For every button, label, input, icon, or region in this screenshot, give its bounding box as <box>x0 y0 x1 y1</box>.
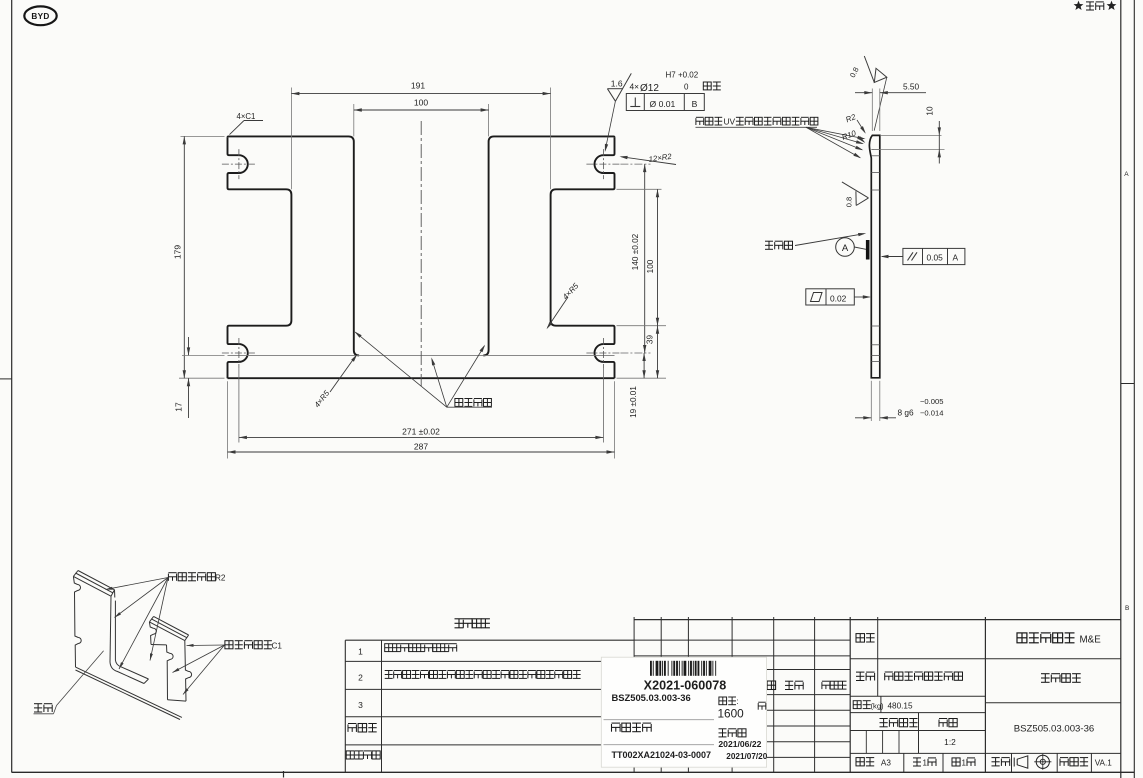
sheet size label <box>856 758 864 766</box>
dim 140 pm 0.02 vertical <box>644 164 646 353</box>
svg-text:2: 2 <box>358 673 363 683</box>
svg-text:H7 +0.02: H7 +0.02 <box>666 71 699 80</box>
dim 287 extension lines <box>227 381 229 458</box>
label barcode <box>650 661 652 676</box>
svg-text:8 g6: 8 g6 <box>898 407 915 417</box>
slot centerline cross <box>222 352 256 354</box>
drawing frame bottom border <box>12 771 1135 773</box>
svg-text:BSZ505.03.003-36: BSZ505.03.003-36 <box>612 692 691 703</box>
dim 17 extension line at base top <box>182 354 225 356</box>
dim 8 g6 extension lines <box>870 381 872 421</box>
note leader arrows to side view lip <box>806 127 864 138</box>
dim 100 top extension lines <box>353 104 355 136</box>
side view plate outline <box>869 135 879 377</box>
3d sketch right plate left edge with slot notches <box>149 622 156 645</box>
svg-text:C1: C1 <box>272 642 283 651</box>
star symbol left <box>1074 1 1084 10</box>
slot centerline extension down left for 271 dim <box>238 368 240 443</box>
stage mark label <box>880 719 888 727</box>
svg-text:A: A <box>1124 171 1129 178</box>
label inner edge chamfer R2 <box>168 573 176 581</box>
svg-text:X2021-060078: X2021-060078 <box>644 678 727 692</box>
partial stamp glyph <box>758 702 766 710</box>
svg-text:R2: R2 <box>215 574 226 583</box>
svg-text:39: 39 <box>646 335 655 345</box>
svg-text:VA.1: VA.1 <box>1095 758 1113 767</box>
secret text 秘密 <box>1086 2 1094 10</box>
3d sketch left plate bottom edge <box>76 667 182 717</box>
label rule lines <box>604 719 715 721</box>
svg-text:Ø12: Ø12 <box>640 83 659 94</box>
front view top edge right segment with central opening right edge <box>483 136 614 355</box>
3d sketch web bottom curve <box>110 662 144 684</box>
svg-text:TT002XA21024-03-0007: TT002XA21024-03-0007 <box>612 750 712 760</box>
front view part outline left leg <box>228 137 292 378</box>
dim 179 extension lines <box>181 135 225 137</box>
left margin zone divider <box>0 378 12 380</box>
3d sketch left plate left edge with slot notches <box>73 576 81 667</box>
dim 271 pm 0.02 <box>239 436 604 438</box>
svg-text:2021/07/20: 2021/07/20 <box>726 752 767 761</box>
svg-text:480.15: 480.15 <box>888 702 913 711</box>
material value epoxy glass fiber <box>885 672 893 680</box>
label 4xC1 chamfer callout <box>230 121 245 135</box>
additional lip leader arrows <box>806 127 862 150</box>
dim 10 with outside arrows <box>938 121 940 135</box>
datum A circle <box>836 238 855 257</box>
stage mark cells <box>918 713 920 754</box>
svg-text:2021/06/22: 2021/06/22 <box>718 739 761 749</box>
front view bottom edge <box>228 377 615 379</box>
svg-text:BYD: BYD <box>31 12 49 21</box>
roughness 0.8 on top surface <box>874 68 887 82</box>
flatness leader arrow <box>854 296 869 298</box>
svg-text:179: 179 <box>173 245 183 259</box>
3d sketch right plate bottom <box>168 700 187 701</box>
svg-text:Ø 0.01: Ø 0.01 <box>650 99 676 109</box>
svg-text:10: 10 <box>926 106 935 116</box>
svg-text:−0.005: −0.005 <box>920 397 943 406</box>
scale label <box>939 719 947 727</box>
svg-text:0.02: 0.02 <box>830 293 847 303</box>
dim 5.50 extension lines <box>871 89 873 132</box>
dim 39 vertical <box>617 377 667 379</box>
svg-text:A3: A3 <box>881 758 891 767</box>
roughness symbol 1.6 on top right <box>607 88 623 90</box>
drawing frame right inner border <box>1120 0 1122 778</box>
feature control frame perpendicularity <box>626 94 704 111</box>
3d sketch right plate top edge band <box>149 622 184 641</box>
material label <box>856 672 864 680</box>
roughness 0.8 on left face <box>842 182 869 198</box>
svg-text:1: 1 <box>962 758 967 767</box>
bottom row cell separators <box>903 753 905 772</box>
drawing frame left border <box>11 0 13 773</box>
3d sketch web verticals <box>110 596 111 662</box>
svg-text:A: A <box>842 243 849 254</box>
slot centerline extension right lower for 19 dim <box>620 352 650 354</box>
svg-text:M&E: M&E <box>1080 634 1102 645</box>
label front face <box>34 704 42 712</box>
svg-text:B: B <box>692 99 698 109</box>
revision header partial glyph <box>767 681 776 690</box>
3d sketch inner web line <box>144 679 149 684</box>
tech requirements table grid <box>344 640 346 772</box>
view angle label <box>992 758 1000 766</box>
svg-text:1600: 1600 <box>718 707 745 721</box>
dim 100 right vertical <box>657 189 659 325</box>
version label <box>1060 758 1068 766</box>
dim 179 <box>183 136 185 378</box>
label person name <box>719 729 727 737</box>
label quantity caption <box>719 697 727 705</box>
svg-text:1: 1 <box>358 647 363 657</box>
svg-text:191: 191 <box>411 80 425 90</box>
flatness feature control frame <box>806 289 855 305</box>
front view top edge left segment with corner fillets <box>228 136 360 355</box>
title block horizontals middle <box>850 658 1121 660</box>
slot centerline extension down right for 271 dim <box>602 368 604 443</box>
parallelism feature control frame <box>903 248 965 264</box>
svg-text:BSZ505.03.003-36: BSZ505.03.003-36 <box>1014 723 1095 734</box>
signature column header <box>785 681 793 689</box>
svg-text:17: 17 <box>174 402 184 412</box>
BYD logo ellipse <box>24 6 56 25</box>
first angle projection symbol circle <box>1036 755 1049 768</box>
dim 17 with outside arrows <box>188 337 190 355</box>
label sticker background <box>601 657 766 767</box>
leader from roughness to part <box>605 101 615 150</box>
dim 8 g6 with outside arrows <box>855 417 871 419</box>
drawing frame right outer border <box>1133 0 1135 778</box>
label edges smooth with leaders <box>455 399 463 407</box>
svg-text:0: 0 <box>684 83 689 92</box>
front view part outline right leg <box>551 137 615 378</box>
slot centerline extension right upper for 140 dim <box>620 163 650 165</box>
weight label <box>853 701 861 709</box>
svg-text:A: A <box>953 252 959 262</box>
tech requirements title <box>455 619 464 628</box>
first angle projection symbol cone <box>1017 756 1028 768</box>
weight row label separator <box>880 696 882 712</box>
datum target solid bar on usage face <box>866 240 870 260</box>
dim 100 right extension lines <box>617 188 662 190</box>
svg-text:4×: 4× <box>630 82 640 92</box>
side view internal segment ticks <box>871 148 880 150</box>
svg-text:−0.014: −0.014 <box>920 409 943 418</box>
spec label <box>856 634 865 643</box>
svg-text:100: 100 <box>646 259 655 273</box>
slot centerline cross <box>222 163 256 165</box>
svg-text:(kg): (kg) <box>871 702 885 711</box>
dim 191 <box>291 93 550 95</box>
svg-text:0.05: 0.05 <box>927 252 944 262</box>
svg-text:0.8: 0.8 <box>845 197 854 207</box>
bottom border centering tick <box>283 771 285 778</box>
svg-text::: : <box>737 697 739 706</box>
svg-text:140 ±0.02: 140 ±0.02 <box>631 233 640 270</box>
dim 287 <box>228 451 615 453</box>
revision table grid <box>633 617 635 772</box>
front view base strip top visible edge <box>228 354 615 356</box>
tech req row 1 text surface deburr <box>385 644 393 652</box>
roughness tail line down to plate top <box>874 77 887 130</box>
dim 191 extension lines <box>290 88 292 190</box>
dim 100 top <box>354 109 489 111</box>
label 12xR2 with leader <box>622 157 677 165</box>
division name <box>1017 633 1027 643</box>
date column header <box>822 681 830 689</box>
dim 5.50 with outside arrows <box>855 92 872 94</box>
3d sketch right plate right edge <box>185 641 192 702</box>
title block right column separator <box>985 702 1120 704</box>
svg-text:100: 100 <box>414 97 428 107</box>
side view base top tick <box>871 355 880 357</box>
svg-text:1.6: 1.6 <box>611 78 623 88</box>
slot centerline cross <box>586 352 620 354</box>
3d sketch left plate top edge band <box>73 576 111 596</box>
zone divider on right margin <box>1121 383 1135 385</box>
label outer edge chamfer C1 <box>225 641 233 649</box>
svg-text:5.50: 5.50 <box>903 81 920 91</box>
surface treatment row header <box>346 751 354 759</box>
svg-text:1:2: 1:2 <box>944 737 956 747</box>
svg-text:4×C1: 4×C1 <box>237 112 256 121</box>
svg-text:UV: UV <box>724 117 736 127</box>
label usage face with leader <box>765 241 773 249</box>
note UV varnish on this face <box>696 117 704 125</box>
heat treatment row header <box>348 724 356 732</box>
svg-text:3: 3 <box>358 700 363 710</box>
dim 19 pm 0.01 vertical <box>643 353 645 378</box>
svg-text:1: 1 <box>923 758 928 767</box>
star symbol right <box>1107 1 1117 10</box>
part name movable plate clamp <box>1041 674 1050 683</box>
svg-text:287: 287 <box>414 442 428 452</box>
label part name <box>612 723 621 732</box>
dim 10 extension lines <box>881 134 942 136</box>
parallelism leader arrow <box>882 256 903 258</box>
svg-text:19 ±0.01: 19 ±0.01 <box>629 386 638 418</box>
tech req row 2 text paint surface <box>385 671 393 679</box>
vertical centerline of part <box>420 121 422 386</box>
hole callout through text <box>703 82 711 90</box>
svg-text:271 ±0.02: 271 ±0.02 <box>402 426 440 436</box>
page labels <box>913 758 921 766</box>
svg-text:B: B <box>1125 605 1129 612</box>
title block main verticals <box>849 617 851 772</box>
slot centerline cross <box>586 163 620 165</box>
